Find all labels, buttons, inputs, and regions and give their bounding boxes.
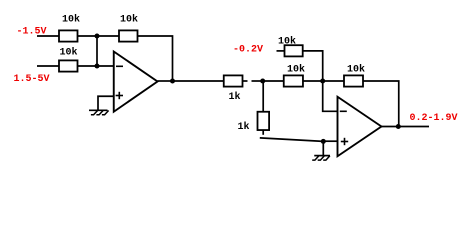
wire U1 noninverting input to ground xyxy=(98,96,114,110)
wire node E to R7 xyxy=(323,80,344,82)
svg-text:0.2-1.9V: 0.2-1.9V xyxy=(410,113,458,124)
resistor R8 1k vertical xyxy=(238,112,270,133)
svg-text:10k: 10k xyxy=(62,14,80,26)
wire input2 xyxy=(37,65,59,67)
svg-text:10k: 10k xyxy=(278,36,296,48)
wire node E to U2 inverting input xyxy=(323,81,338,111)
wire R8 bottom stub xyxy=(262,130,264,135)
svg-text:10k: 10k xyxy=(287,64,305,76)
wire node B to U1 inverting input xyxy=(97,65,114,67)
node D junction xyxy=(260,79,265,84)
wire node D down to R8 xyxy=(262,81,264,112)
resistor R3 10k feedback xyxy=(119,14,138,42)
svg-text:10k: 10k xyxy=(120,14,138,26)
resistor R4 1k xyxy=(224,75,243,103)
wire node F to U2 noninverting input xyxy=(323,140,337,142)
node F junction xyxy=(321,139,326,144)
wire node F to ground xyxy=(322,141,324,155)
svg-text:10k: 10k xyxy=(347,64,365,76)
wire R4 lead xyxy=(243,80,248,82)
ground G1 xyxy=(89,110,109,115)
svg-text:1.5-5V: 1.5-5V xyxy=(14,74,50,85)
node G junction (U2 out / feedback) xyxy=(396,124,401,129)
wire node A to R3 xyxy=(97,35,119,37)
resistor R6 10k xyxy=(284,64,305,87)
resistor R7 10k xyxy=(344,64,365,87)
wire U1 output xyxy=(158,80,173,82)
node B junction xyxy=(95,64,100,69)
wire R6 to node E xyxy=(303,80,323,82)
wire R3 to feedback corner xyxy=(138,36,173,81)
ground G2 xyxy=(312,156,330,161)
op-amp U1 xyxy=(114,52,158,112)
wire stub -0.2V input xyxy=(277,50,285,52)
svg-text:1k: 1k xyxy=(229,91,241,103)
node E junction xyxy=(320,79,325,84)
svg-text:1k: 1k xyxy=(238,121,250,133)
op-amp U2 xyxy=(338,97,382,157)
wire node A to node B vertical xyxy=(96,36,98,66)
svg-text:10k: 10k xyxy=(60,47,78,59)
resistor R5 10k xyxy=(278,36,303,57)
wire U2 output xyxy=(382,126,430,128)
wire slanted R8 to node F xyxy=(260,138,324,142)
wire to node D xyxy=(252,80,263,82)
wire R1 to node A xyxy=(78,35,98,37)
wire R5 to node E xyxy=(303,51,323,81)
resistor R2 10k xyxy=(59,47,78,72)
wire node D to R6 xyxy=(263,80,284,82)
wire R2 to node B xyxy=(78,65,98,67)
resistor R1 10k xyxy=(59,14,80,42)
wire R7 to output corner xyxy=(363,81,399,127)
wire input1 xyxy=(37,35,59,37)
svg-text:-0.2V: -0.2V xyxy=(233,44,263,55)
node C junction (U1 out / feedback) xyxy=(170,79,175,84)
wire node C to R4 xyxy=(173,80,224,82)
node A junction xyxy=(95,34,100,39)
